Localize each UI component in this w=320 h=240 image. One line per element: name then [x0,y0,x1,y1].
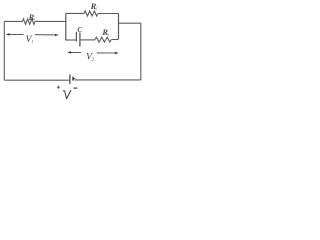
resistor R2 zigzag (top branch) [84,11,98,16]
wire: right vertical branch [140,23,142,80]
node A: parallel block left vertical [65,13,67,40]
node B: parallel block right vertical [118,13,120,39]
resistor R1 zigzag [22,19,35,24]
svg-text:C: C [77,26,82,34]
wire: parallel block bottom branch left segment [65,39,76,41]
label + (battery positive) [57,86,60,89]
label R3 [101,28,109,37]
battery V long plate (+) [69,75,71,85]
capacitor C right plate [79,32,81,46]
label R1 [28,13,36,22]
wire: top horizontal from R1 to node A [35,20,66,22]
svg-text:3: 3 [107,33,109,37]
wire: parallel block top branch right segment [98,13,119,15]
label V (source voltage) [63,90,71,98]
wire: bottom branch right segment [111,39,118,41]
label C [77,26,82,34]
wire: bottom horizontal right of battery [75,79,141,81]
wire: tap from node B to right side [119,22,141,24]
wire: bottom horizontal left of battery [4,79,69,81]
label V2 [86,52,95,64]
label - (battery negative) [74,87,78,89]
V2 span arrow pointing right [97,52,119,54]
wire: bottom branch from capacitor to resistor R3 [81,39,96,41]
label V1 [26,34,34,45]
resistor R3 zigzag (bottom branch) [95,37,111,42]
svg-text:1: 1 [31,39,33,44]
capacitor C left plate [75,32,77,42]
wire: left vertical branch [3,21,5,80]
V1 span arrow pointing left [6,33,24,35]
label R2 [90,2,98,11]
wire: top horizontal from left corner to resistor R1 [4,20,22,22]
battery V short plate (-) [73,77,75,81]
svg-text:2: 2 [92,58,95,63]
V1 span arrow pointing right [35,34,59,36]
V2 span arrow pointing left [67,51,81,53]
wire: parallel block top branch left segment [66,12,84,14]
svg-text:2: 2 [96,7,98,11]
